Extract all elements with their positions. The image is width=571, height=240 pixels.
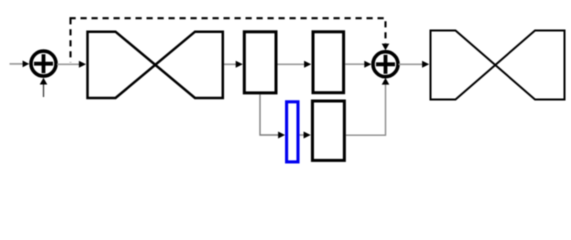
block R1 bbox=[244, 32, 276, 93]
wire bottom input arrow into S1 bbox=[40, 78, 48, 97]
blue block Z bbox=[287, 102, 298, 162]
wire input arrow into summer S1 bbox=[10, 61, 30, 68]
wire R2 to summer S2 bbox=[345, 61, 371, 68]
wire S2 to bowtie block B2 bbox=[399, 61, 430, 68]
summing junction S1 bbox=[31, 51, 56, 76]
wire blue block to block R3 bbox=[300, 132, 311, 139]
wire from R1 bottom to blue block bbox=[260, 95, 285, 139]
summing junction S2 bbox=[373, 52, 398, 77]
bowtie block B2 bbox=[431, 31, 565, 100]
block R3 bbox=[312, 101, 344, 160]
wire R3 to S2 bottom bbox=[346, 78, 389, 135]
bowtie block B1 bbox=[88, 32, 223, 98]
wire R1 to block R2 bbox=[278, 61, 312, 68]
wire S1 to block B1 bbox=[57, 61, 86, 68]
dashed feed-forward wire from S1 output to S2 bbox=[70, 18, 390, 62]
wire B1 to block R1 bbox=[224, 61, 243, 68]
block R2 bbox=[313, 32, 344, 93]
